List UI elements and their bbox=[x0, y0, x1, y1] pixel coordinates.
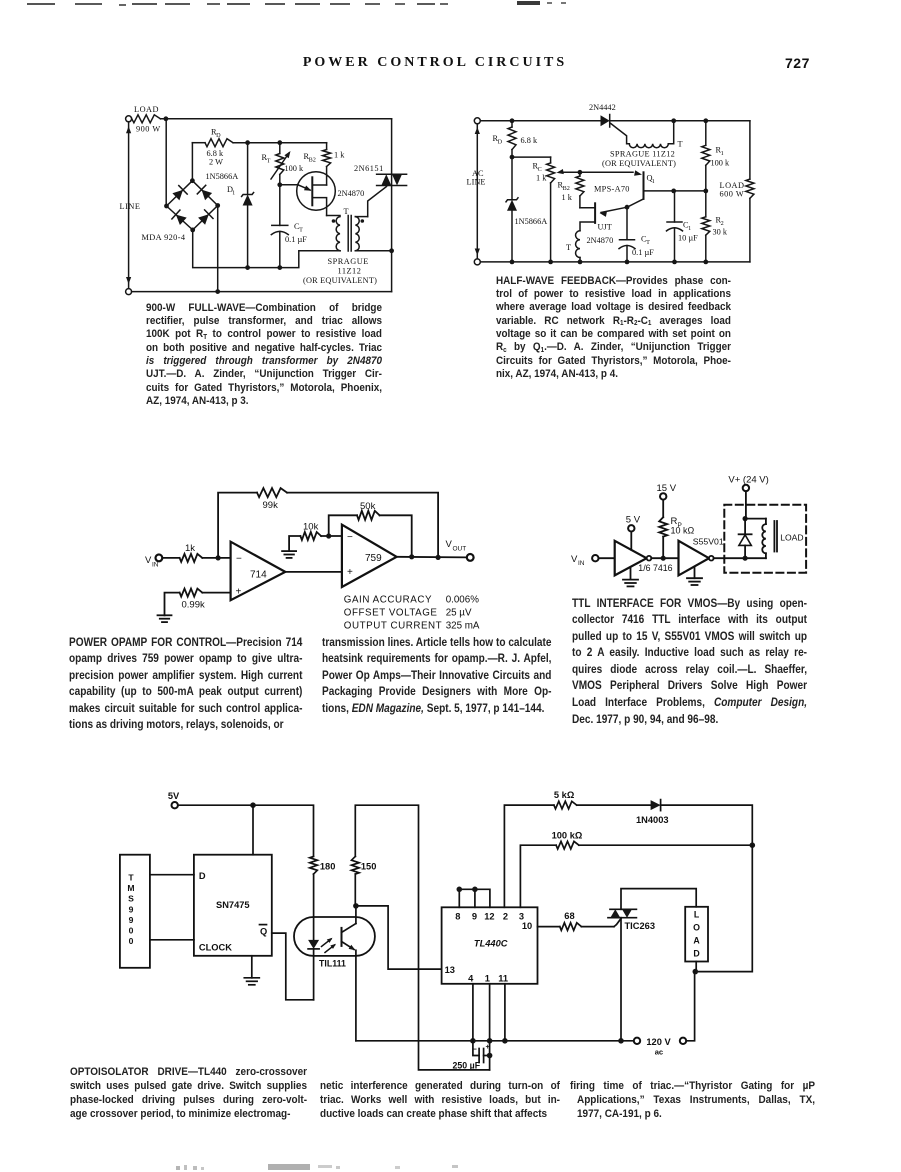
svg-text:9: 9 bbox=[129, 904, 134, 914]
bridge rectifier MDA 920-4 bbox=[167, 181, 218, 230]
svg-text:T: T bbox=[566, 243, 571, 252]
svg-text:TIC263: TIC263 bbox=[625, 921, 656, 931]
node: top-left LINE terminal bbox=[126, 116, 132, 122]
zener diode D1 1N5866A bbox=[247, 143, 249, 195]
caption: OPTOISOLATOR col 3 bbox=[570, 1080, 815, 1122]
svg-text:GAIN ACCURACY: GAIN ACCURACY bbox=[344, 595, 432, 606]
svg-text:IN: IN bbox=[152, 562, 159, 569]
svg-text:10k: 10k bbox=[303, 522, 319, 533]
resistor R2 30k bbox=[705, 191, 707, 217]
svg-text:6.8 k: 6.8 k bbox=[521, 136, 538, 145]
svg-text:0.006%: 0.006% bbox=[446, 595, 480, 606]
svg-text:T: T bbox=[678, 140, 683, 149]
svg-text:CLOCK: CLOCK bbox=[199, 943, 232, 953]
svg-text:MDA 920-4: MDA 920-4 bbox=[142, 233, 186, 242]
svg-text:Q: Q bbox=[260, 927, 267, 937]
svg-text:30 k: 30 k bbox=[713, 227, 728, 236]
resistor R1 100k bbox=[705, 121, 707, 146]
svg-text:SPRAGUE 11Z12: SPRAGUE 11Z12 bbox=[610, 150, 675, 159]
svg-text:900 W: 900 W bbox=[136, 125, 161, 134]
resistor 68 bbox=[538, 926, 560, 928]
wire: bridge right node down to bottom rail bbox=[217, 206, 219, 292]
inverter S55V01 bbox=[679, 541, 710, 576]
node: bottom-left LINE terminal bbox=[126, 289, 132, 295]
wire: bridge bottom to inner rail bbox=[193, 230, 340, 268]
ground (inverter 1) bbox=[630, 567, 632, 580]
IC TL440C bbox=[442, 907, 538, 984]
svg-text:O: O bbox=[693, 923, 700, 933]
svg-text:T: T bbox=[344, 207, 349, 216]
potentiometer RC 1k bbox=[512, 156, 551, 158]
wire: collector node to pin 13 bbox=[356, 906, 442, 969]
svg-text:B2: B2 bbox=[563, 185, 570, 192]
svg-text:1N4003: 1N4003 bbox=[636, 815, 669, 825]
svg-text:1/6 7416: 1/6 7416 bbox=[638, 563, 672, 573]
svg-text:D: D bbox=[199, 871, 206, 881]
pulse transformer T SPRAGUE 11Z12 bbox=[327, 215, 340, 217]
svg-text:MPS-A70: MPS-A70 bbox=[594, 185, 630, 194]
svg-text:0.1 µF: 0.1 µF bbox=[632, 248, 654, 257]
svg-text:9: 9 bbox=[472, 912, 477, 922]
svg-text:T: T bbox=[128, 873, 134, 883]
UJT 2N4870 bbox=[297, 172, 336, 211]
svg-text:V: V bbox=[145, 555, 152, 566]
svg-text:S: S bbox=[128, 894, 134, 904]
resistor RB2 1k bbox=[326, 143, 328, 150]
svg-text:50k: 50k bbox=[360, 501, 376, 512]
svg-text:1 k: 1 k bbox=[562, 193, 573, 202]
wire: Q1 base lead to divider bbox=[644, 190, 706, 192]
caption: OPTOISOLATOR col 2 bbox=[320, 1080, 560, 1122]
top scan-edge marks (decorative) bbox=[27, 3, 55, 5]
node: AC LINE bottom terminal bbox=[474, 259, 480, 265]
svg-text:D: D bbox=[693, 949, 699, 959]
svg-text:150: 150 bbox=[361, 862, 377, 872]
transformer winding T SPRAGUE 11Z12 bbox=[629, 144, 668, 148]
wire: SCR gate to winding bbox=[611, 123, 630, 143]
wire: pin 3 to 100k line bbox=[520, 845, 556, 907]
svg-text:5V: 5V bbox=[168, 791, 180, 801]
svg-text:C: C bbox=[538, 166, 542, 173]
resistor 150 bbox=[354, 874, 356, 906]
svg-text:IN: IN bbox=[578, 560, 585, 567]
wire: right branch down to load bottom bbox=[695, 845, 752, 971]
resistor 99k feedback bbox=[218, 493, 257, 558]
svg-text:4: 4 bbox=[468, 974, 474, 984]
resistor RP 10 kOhm bbox=[662, 537, 664, 559]
diode bridge bottom-right (points to right node) bbox=[198, 214, 209, 225]
capacitor C1 10 uF bbox=[674, 191, 676, 222]
svg-text:1: 1 bbox=[652, 178, 655, 185]
svg-text:68: 68 bbox=[564, 911, 574, 921]
svg-text:9: 9 bbox=[129, 915, 134, 925]
svg-text:11Z12: 11Z12 bbox=[338, 267, 362, 276]
svg-text:8: 8 bbox=[455, 912, 460, 922]
svg-text:LINE: LINE bbox=[120, 202, 141, 211]
caption: TTL INTERFACE FOR VMOS bbox=[572, 595, 807, 728]
resistor 100 kOhm bbox=[556, 841, 579, 849]
capacitor CT 0.1 uF bbox=[626, 207, 628, 240]
svg-text:0: 0 bbox=[129, 936, 134, 946]
svg-text:13: 13 bbox=[445, 965, 455, 975]
wire: LED branch bbox=[313, 874, 315, 940]
resistor 180 bbox=[310, 856, 318, 874]
wire: left AC LINE conductor bbox=[476, 124, 478, 259]
wire: top rail bbox=[480, 120, 600, 122]
svg-text:325 mA: 325 mA bbox=[446, 621, 480, 632]
svg-text:100 k: 100 k bbox=[711, 158, 731, 167]
resistor RD 6.8k bbox=[511, 121, 513, 127]
svg-text:V: V bbox=[446, 539, 453, 550]
svg-text:3: 3 bbox=[519, 912, 524, 922]
wire: RC wiper line bbox=[560, 171, 633, 173]
wire: pins 8,9,12 strap bbox=[458, 889, 460, 907]
load box bbox=[685, 907, 708, 962]
triac 2N6151 bbox=[377, 173, 407, 175]
op-amp 714 bbox=[231, 542, 286, 601]
svg-text:600 W: 600 W bbox=[720, 190, 745, 199]
resistor 0.99k with ground bbox=[158, 614, 172, 616]
svg-text:15 V: 15 V bbox=[657, 483, 677, 494]
caption: OPTOISOLATOR DRIVE col 1 bbox=[70, 1066, 307, 1122]
diode bridge bottom-left (points to left node) bbox=[176, 215, 187, 225]
wire: load bottom node bbox=[695, 962, 697, 972]
svg-text:1: 1 bbox=[232, 190, 235, 197]
node: 120V terminal right bbox=[680, 1038, 686, 1044]
svg-text:25 µV: 25 µV bbox=[446, 608, 472, 619]
svg-text:1 k: 1 k bbox=[334, 151, 345, 160]
optocoupler TIL111 bbox=[294, 917, 375, 956]
ground (inverter 2) bbox=[694, 567, 696, 578]
svg-text:11: 11 bbox=[498, 974, 508, 984]
svg-text:T: T bbox=[646, 239, 650, 246]
svg-text:(OR EQUIVALENT): (OR EQUIVALENT) bbox=[602, 159, 676, 168]
node: VIN terminal bbox=[156, 555, 163, 562]
svg-text:5 V: 5 V bbox=[626, 515, 641, 526]
capacitor CT 0.1 uF bbox=[279, 185, 281, 226]
node: 120V terminal left bbox=[634, 1038, 640, 1044]
op-amp 759 bbox=[342, 525, 397, 587]
resistor 50k feedback bbox=[329, 515, 357, 536]
svg-text:OUT: OUT bbox=[453, 546, 467, 553]
svg-text:B2: B2 bbox=[309, 157, 316, 164]
svg-text:5 kΩ: 5 kΩ bbox=[554, 790, 575, 800]
IC TMS9900 bbox=[120, 855, 150, 968]
svg-text:0.1 µF: 0.1 µF bbox=[285, 235, 307, 244]
bottom faint marks bbox=[176, 1166, 180, 1170]
svg-text:10 µF: 10 µF bbox=[678, 234, 698, 243]
svg-text:120 V: 120 V bbox=[646, 1037, 671, 1047]
svg-text:D: D bbox=[216, 132, 221, 139]
wire: bottom rail bbox=[132, 291, 392, 293]
resistor 5 kOhm bbox=[554, 801, 577, 809]
wire: left LINE conductor with arrows bbox=[128, 122, 130, 289]
svg-text:SPRAGUE: SPRAGUE bbox=[328, 257, 369, 266]
wire: Q1 collector to UJT node bbox=[627, 199, 644, 207]
resistor RD 6.8k 2W bbox=[192, 142, 205, 144]
svg-text:−: − bbox=[236, 554, 242, 565]
caption: POWER OPAMP FOR CONTROL col 1 bbox=[69, 634, 302, 734]
winding T (UJT base 1) bbox=[576, 231, 580, 258]
svg-text:TL440C: TL440C bbox=[474, 939, 508, 949]
wire: triac gate to transformer secondary bbox=[368, 187, 387, 217]
diode bridge top-left (points to top node) bbox=[172, 190, 183, 201]
svg-text:LOAD: LOAD bbox=[134, 105, 159, 114]
svg-text:T: T bbox=[299, 227, 303, 234]
svg-text:2: 2 bbox=[721, 220, 724, 227]
svg-text:(OR EQUIVALENT): (OR EQUIVALENT) bbox=[303, 276, 377, 285]
wire: collector up to 150 node bbox=[355, 906, 357, 924]
svg-text:+: + bbox=[486, 1042, 491, 1051]
svg-text:OFFSET VOLTAGE: OFFSET VOLTAGE bbox=[344, 608, 438, 619]
caption: 900-W FULL-WAVE bbox=[146, 302, 382, 409]
wire: 714 output to 759 bbox=[285, 571, 342, 573]
svg-text:1: 1 bbox=[688, 225, 691, 232]
bottom rail bbox=[356, 1040, 634, 1042]
node: AC LINE top terminal bbox=[474, 118, 480, 124]
svg-text:250 µF: 250 µF bbox=[453, 1061, 481, 1071]
svg-text:V: V bbox=[571, 554, 578, 565]
diode 1N4003 bbox=[577, 804, 651, 806]
svg-text:2 W: 2 W bbox=[209, 158, 223, 167]
svg-text:1: 1 bbox=[485, 974, 490, 984]
svg-text:SN7475: SN7475 bbox=[216, 900, 250, 910]
svg-text:A: A bbox=[693, 936, 700, 946]
IC SN7475 bbox=[194, 855, 272, 956]
diode bridge top-right (points to top node) bbox=[202, 190, 213, 201]
node: VOUT terminal bbox=[467, 554, 474, 561]
wire: Vcc to SN7475 bbox=[252, 805, 254, 855]
wire: S55V01 output into load box bbox=[714, 557, 766, 559]
svg-text:S55V01: S55V01 bbox=[693, 537, 724, 547]
SCR 2N4442 bbox=[601, 115, 610, 126]
svg-text:714: 714 bbox=[250, 570, 267, 581]
svg-text:1 k: 1 k bbox=[536, 173, 547, 182]
svg-text:−: − bbox=[473, 1045, 478, 1054]
diode (relay clamp) bbox=[744, 519, 746, 535]
svg-text:L: L bbox=[694, 910, 700, 920]
svg-text:1k: 1k bbox=[185, 543, 195, 554]
running head bbox=[175, 55, 695, 71]
svg-text:OUTPUT CURRENT: OUTPUT CURRENT bbox=[344, 621, 442, 632]
svg-text:2N4870: 2N4870 bbox=[338, 189, 365, 198]
svg-text:10 kΩ: 10 kΩ bbox=[671, 526, 695, 536]
wire: right rail bbox=[391, 119, 393, 174]
svg-text:10: 10 bbox=[522, 921, 532, 931]
ground (SN7475) bbox=[251, 956, 253, 978]
UJT 2N4870 bbox=[594, 203, 596, 223]
transistor Q1 MPS-A70 bbox=[643, 172, 645, 199]
wires: pins 4,1,11 to rail bbox=[472, 984, 474, 1041]
caption: POWER OPAMP col 2 bbox=[322, 634, 551, 717]
wire: diode to right corner bbox=[661, 805, 753, 845]
wire: bridge top to RD rail bbox=[191, 143, 193, 181]
wire: output to VOUT bbox=[397, 556, 467, 559]
svg-text:V+ (24 V): V+ (24 V) bbox=[728, 475, 768, 486]
svg-text:180: 180 bbox=[320, 862, 336, 872]
svg-text:2N4870: 2N4870 bbox=[587, 236, 614, 245]
resistor 1k bbox=[162, 557, 179, 559]
svg-text:1N5866A: 1N5866A bbox=[206, 172, 239, 181]
zener diode 1N5866A bbox=[511, 157, 513, 200]
resistor RB2 1k bbox=[579, 172, 581, 176]
wire: 5V rail bbox=[178, 805, 314, 856]
wire: inverter1 out bbox=[651, 557, 678, 559]
wire: TMS9900 to D bbox=[150, 874, 194, 876]
svg-text:2N6151: 2N6151 bbox=[354, 164, 384, 173]
wire: Q-bar to LED cathode bbox=[272, 933, 314, 1000]
inverter 1/6 7416 bbox=[615, 541, 647, 576]
svg-text:UJT: UJT bbox=[598, 223, 612, 232]
svg-text:100 kΩ: 100 kΩ bbox=[552, 831, 583, 841]
relay coil LOAD bbox=[745, 518, 766, 520]
svg-text:+: + bbox=[236, 587, 242, 598]
wire: bottom rail bbox=[480, 261, 750, 263]
wire: emitter down to bottom rail bbox=[355, 950, 357, 1041]
resistor LOAD 600 W bbox=[749, 121, 751, 179]
light arrows bbox=[322, 939, 335, 953]
svg-text:759: 759 bbox=[365, 553, 382, 564]
potentiometer RT 100k bbox=[279, 143, 281, 154]
svg-text:ac: ac bbox=[655, 1048, 663, 1057]
svg-text:0: 0 bbox=[129, 926, 134, 936]
svg-text:TIL111: TIL111 bbox=[319, 959, 346, 969]
caption: HALF-WAVE FEEDBACK bbox=[496, 275, 731, 382]
wire: gate bend to triac bbox=[614, 919, 621, 927]
wire: top rail bbox=[161, 118, 392, 120]
triac TIC263 bbox=[610, 908, 636, 910]
wire: left bridge node up to LOAD node bbox=[165, 119, 167, 206]
wire: triac cathode to rail bbox=[620, 918, 622, 1041]
svg-text:T: T bbox=[267, 158, 271, 165]
svg-text:2N4442: 2N4442 bbox=[589, 103, 616, 112]
svg-text:2: 2 bbox=[503, 912, 508, 922]
capacitor 250 uF bbox=[473, 1041, 479, 1056]
svg-text:0.99k: 0.99k bbox=[182, 600, 205, 611]
svg-text:M: M bbox=[127, 883, 134, 893]
svg-text:LOAD: LOAD bbox=[780, 533, 803, 543]
svg-text:1N5866A: 1N5866A bbox=[515, 217, 548, 226]
svg-text:1: 1 bbox=[721, 150, 724, 157]
wire: TMS9900 to CLOCK bbox=[150, 939, 194, 941]
resistor 10k with ground bbox=[282, 550, 296, 552]
svg-text:D: D bbox=[498, 139, 503, 146]
svg-text:−: − bbox=[347, 532, 353, 543]
wire: pin 2 to 5k line bbox=[504, 805, 554, 907]
LED (TIL111) bbox=[308, 940, 319, 949]
svg-text:LINE: LINE bbox=[467, 178, 486, 187]
wire: triac anode up and top link bbox=[621, 889, 696, 910]
svg-text:12: 12 bbox=[484, 912, 494, 922]
resistor LOAD 900 W bbox=[132, 115, 161, 123]
svg-text:99k: 99k bbox=[263, 500, 279, 511]
phototransistor (TIL111) bbox=[341, 928, 343, 946]
svg-text:100 k: 100 k bbox=[285, 164, 305, 173]
svg-text:+: + bbox=[347, 567, 353, 578]
dashed relay enclosure bbox=[724, 505, 806, 573]
